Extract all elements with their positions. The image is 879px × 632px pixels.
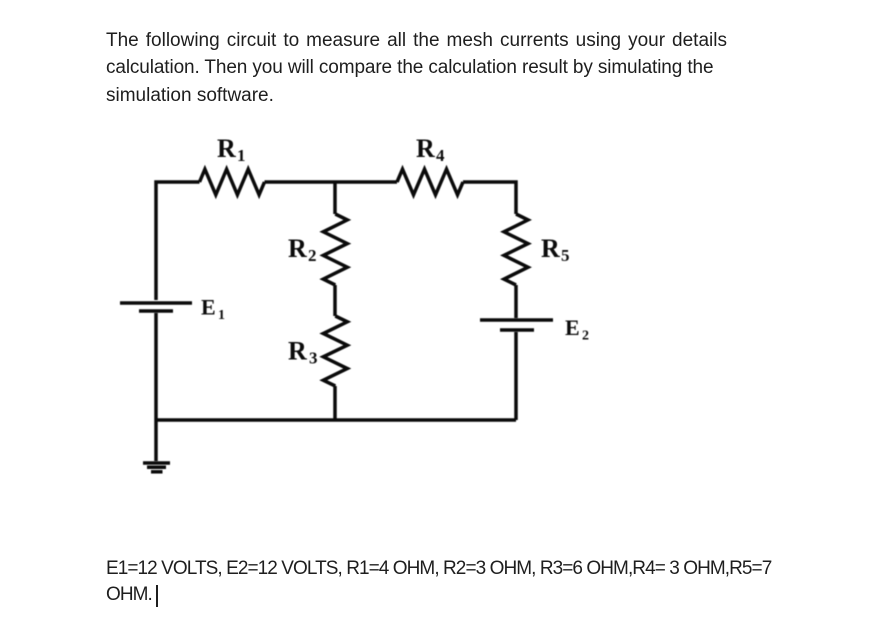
svg-text:1: 1 [218, 308, 225, 323]
svg-text:4: 4 [436, 146, 445, 165]
wire middle-bottom segment [333, 386, 337, 420]
wire top-right segment [463, 182, 516, 214]
svg-text:E: E [565, 315, 580, 340]
svg-text:5: 5 [561, 246, 570, 265]
wire left-lower segment [154, 313, 158, 420]
problem statement paragraph [106, 27, 727, 109]
values paragraph [106, 556, 771, 608]
svg-text:R: R [288, 337, 307, 366]
svg-text:R: R [217, 134, 236, 163]
wire right-bottom segment [514, 332, 518, 420]
label R1 [217, 134, 246, 165]
svg-text:E: E [201, 295, 216, 320]
wire ground stem [154, 420, 158, 461]
label E2 [565, 315, 589, 344]
resistor R4 [397, 169, 463, 195]
battery E1 [120, 303, 192, 311]
svg-text:1: 1 [237, 146, 246, 165]
label R2 [288, 234, 317, 265]
battery E2 [480, 320, 553, 330]
resistor R5 [504, 214, 528, 285]
svg-text:2: 2 [308, 246, 317, 265]
wire bottom segment [156, 418, 516, 422]
wire right-mid segment [514, 285, 518, 318]
resistor R3 [323, 316, 347, 386]
svg-text:R: R [288, 234, 307, 263]
label R3 [288, 337, 318, 368]
label R5 [541, 234, 570, 265]
label E1 [201, 295, 225, 324]
label R4 [416, 134, 445, 165]
svg-text:R: R [541, 234, 560, 263]
wire top-middle segment [265, 180, 398, 184]
wire top-left segment [156, 182, 200, 300]
resistor R2 [323, 214, 347, 285]
resistor R1 [200, 169, 265, 195]
wire middle-top segment [333, 182, 337, 214]
wire middle-mid segment [333, 285, 337, 316]
svg-text:R: R [416, 134, 435, 163]
ground [143, 463, 170, 472]
svg-text:3: 3 [309, 349, 318, 368]
text cursor [156, 585, 158, 607]
svg-text:2: 2 [582, 329, 589, 344]
